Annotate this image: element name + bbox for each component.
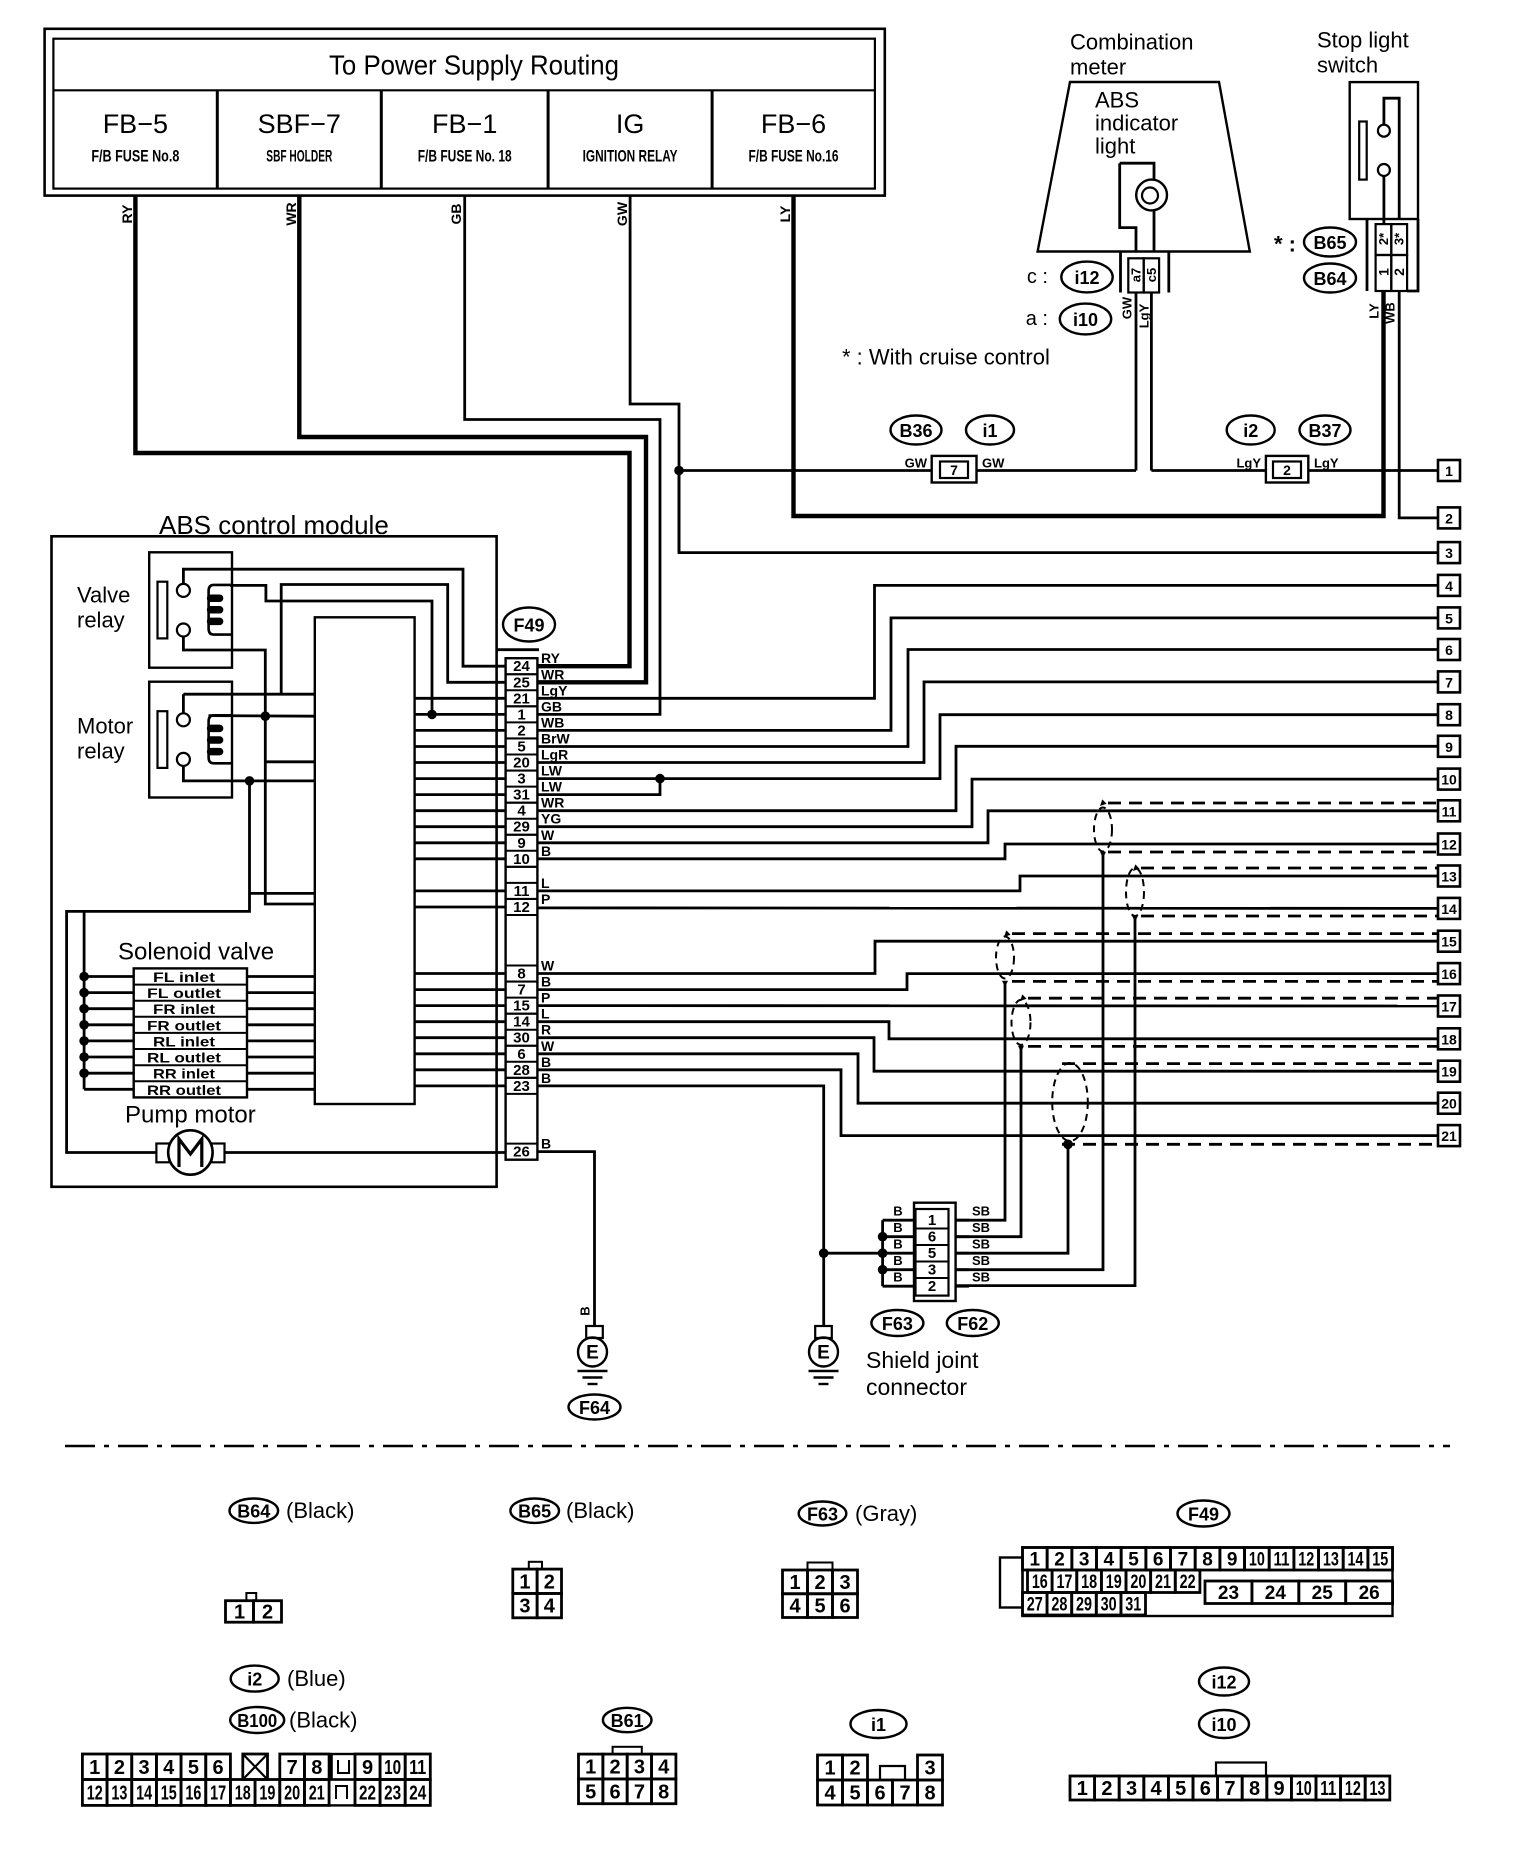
pump motor: [156, 1144, 169, 1163]
solenoid FR inlet wires: [84, 1007, 134, 1010]
svg-text:19: 19: [259, 1782, 275, 1804]
wire motor contact feed: [183, 693, 314, 696]
svg-text:5: 5: [188, 1757, 199, 1779]
connector B64 pin diagram: [246, 1593, 256, 1601]
svg-text:20: 20: [513, 755, 530, 772]
svg-text:6: 6: [1153, 1549, 1164, 1570]
shield dashed 14: [1141, 915, 1438, 918]
terminal box 18: [1438, 1028, 1460, 1049]
svg-text:meter: meter: [1070, 55, 1126, 80]
svg-text:4: 4: [824, 1783, 836, 1805]
svg-text:connector: connector: [866, 1374, 967, 1400]
svg-text:SB: SB: [972, 1220, 990, 1235]
shield drain 17-18: [1018, 1046, 1024, 1052]
svg-text:2: 2: [517, 722, 525, 739]
svg-text:c :: c :: [1027, 266, 1048, 288]
wire BrW pin5 to terminal 6: [537, 650, 1438, 747]
svg-text:6: 6: [213, 1757, 224, 1779]
switch internal wire: [1384, 98, 1399, 219]
wire R pin30 to terminal 19: [537, 1038, 1438, 1072]
ground E1: [586, 1326, 603, 1338]
svg-text:6: 6: [1445, 642, 1453, 658]
terminal box 16: [1438, 963, 1460, 984]
shield ellipse pair 17-18: [1012, 1000, 1031, 1045]
terminal box 21: [1438, 1125, 1460, 1146]
shield connector pin 6: [916, 1228, 949, 1230]
svg-text:GW: GW: [614, 201, 630, 226]
svg-text:B65: B65: [1313, 233, 1346, 253]
terminal box 5: [1438, 607, 1460, 628]
svg-text:GB: GB: [448, 204, 464, 225]
svg-text:GW: GW: [905, 456, 928, 471]
svg-text:15: 15: [1441, 934, 1457, 950]
valve relay contact top: [177, 584, 190, 597]
svg-text:4: 4: [163, 1757, 175, 1779]
svg-text:4: 4: [517, 803, 526, 820]
svg-text:relay: relay: [77, 739, 125, 764]
shield dashed 11: [1108, 802, 1438, 805]
SB stub pin 1: [956, 1219, 969, 1222]
svg-text:FR outlet: FR outlet: [147, 1017, 221, 1033]
svg-text:WR: WR: [283, 202, 299, 225]
svg-text:1: 1: [234, 1601, 245, 1623]
svg-text:W: W: [541, 958, 555, 974]
svg-text:6: 6: [1200, 1778, 1211, 1800]
svg-text:12: 12: [1345, 1778, 1361, 1800]
svg-text:B65: B65: [518, 1502, 551, 1522]
oval B65 bottom: [510, 1499, 559, 1523]
B stub pin 2: [883, 1285, 916, 1288]
solenoid RL inlet: [134, 1032, 247, 1034]
svg-text:Valve: Valve: [77, 583, 130, 608]
svg-text:Motor: Motor: [77, 714, 133, 739]
svg-text:18: 18: [1441, 1031, 1457, 1047]
svg-text:6: 6: [928, 1229, 936, 1246]
wire YG pin29 to terminal 10: [537, 779, 1438, 827]
svg-text:28: 28: [1051, 1594, 1067, 1615]
svg-text:3: 3: [517, 771, 525, 788]
B stub pin 6: [883, 1235, 916, 1238]
wire motor relay top contact: [182, 694, 185, 713]
svg-text:i2: i2: [247, 1670, 262, 1690]
svg-text:6: 6: [609, 1781, 620, 1803]
valve relay armature: [158, 582, 168, 639]
junction motor contact node: [245, 776, 255, 786]
terminal box 11: [1438, 800, 1460, 821]
ABS control module box: [52, 536, 497, 1187]
solenoid FL inlet wires: [84, 975, 134, 978]
svg-text:20: 20: [1441, 1096, 1457, 1112]
svg-text:16: 16: [185, 1782, 201, 1804]
svg-text:1: 1: [1445, 463, 1453, 479]
svg-text:FB−1: FB−1: [432, 109, 497, 139]
svg-text:7: 7: [1178, 1549, 1189, 1570]
svg-text:RR inlet: RR inlet: [153, 1066, 215, 1082]
svg-text:P: P: [541, 891, 550, 907]
svg-text:F64: F64: [579, 1398, 610, 1418]
svg-text:8: 8: [1445, 707, 1453, 723]
svg-text:21: 21: [1441, 1128, 1457, 1144]
oval i1 bottom: [851, 1710, 907, 1738]
wire GW from IG ignition relay: [630, 196, 679, 553]
junction GW node: [674, 466, 684, 476]
svg-text:B: B: [893, 1220, 902, 1235]
svg-text:Pump motor: Pump motor: [125, 1102, 256, 1129]
svg-text:8: 8: [517, 966, 525, 983]
svg-text:BrW: BrW: [541, 731, 571, 747]
svg-text:1: 1: [789, 1572, 800, 1594]
svg-text:E: E: [586, 1343, 599, 1364]
svg-text:* : With cruise control: * : With cruise control: [842, 345, 1050, 370]
terminal box 15: [1438, 931, 1460, 952]
svg-text:9: 9: [1445, 739, 1453, 755]
valve relay box: [149, 552, 232, 667]
solenoid FR inlet: [134, 1000, 247, 1002]
svg-text:21: 21: [513, 690, 530, 707]
wire 1 LgY segment: [1151, 469, 1438, 472]
svg-text:8: 8: [1249, 1778, 1260, 1800]
power box cell divider: [547, 90, 550, 188]
svg-text:Shield joint: Shield joint: [866, 1347, 979, 1373]
inline connector 7: [932, 456, 977, 483]
svg-text:7: 7: [950, 462, 958, 478]
svg-text:RR outlet: RR outlet: [147, 1082, 221, 1098]
central ECU block: [315, 617, 415, 1104]
solenoid RR inlet: [134, 1064, 247, 1066]
bus to ground wire: [824, 1252, 883, 1255]
svg-text:F/B FUSE No. 18: F/B FUSE No. 18: [418, 147, 512, 166]
svg-text:B64: B64: [237, 1502, 270, 1522]
svg-text:FL inlet: FL inlet: [153, 969, 215, 985]
svg-text:19: 19: [1441, 1064, 1457, 1080]
svg-text:5: 5: [849, 1783, 860, 1805]
svg-text:SBF−7: SBF−7: [258, 109, 341, 139]
svg-text:B: B: [541, 1136, 551, 1152]
svg-text:F63: F63: [807, 1505, 838, 1525]
wire B pin7 to terminal 16: [537, 974, 1438, 990]
terminal box 10: [1438, 769, 1460, 790]
wire pump motor to pin 26: [225, 1151, 506, 1154]
motor relay contact bottom: [177, 753, 190, 766]
shield dashed 17: [1028, 997, 1438, 1000]
shield drain 11-12: [1100, 852, 1106, 858]
connector B100 pin diagram: [82, 1754, 107, 1780]
svg-text:B: B: [893, 1253, 902, 1268]
svg-text:i1: i1: [871, 1715, 886, 1735]
svg-text:3: 3: [1126, 1778, 1137, 1800]
svg-text:3: 3: [1445, 545, 1453, 561]
svg-text:B: B: [541, 843, 551, 859]
svg-text:3*: 3*: [1392, 232, 1407, 245]
svg-text:(Black): (Black): [566, 1498, 634, 1523]
svg-text:FB−5: FB−5: [103, 109, 168, 139]
svg-text:4: 4: [1104, 1549, 1115, 1570]
shield dashed 18: [1028, 1045, 1438, 1048]
svg-text:2*: 2*: [1376, 232, 1391, 245]
wire LgY from meter: [1150, 293, 1153, 471]
svg-text:13: 13: [1441, 869, 1457, 885]
svg-text:F62: F62: [957, 1314, 988, 1334]
svg-text:(Gray): (Gray): [855, 1501, 917, 1526]
svg-text:FL outlet: FL outlet: [147, 985, 221, 1001]
shield connector pin 2: [916, 1277, 949, 1279]
svg-text:29: 29: [513, 819, 530, 836]
svg-text:1: 1: [585, 1757, 596, 1779]
shield connector pin 5: [916, 1244, 949, 1246]
shield ellipse pair 13-14: [1126, 868, 1144, 916]
svg-text:3: 3: [634, 1757, 645, 1779]
oval i1: [966, 416, 1014, 445]
svg-text:2: 2: [1054, 1549, 1065, 1570]
svg-text:11: 11: [514, 883, 530, 900]
oval F63 bottom: [799, 1502, 847, 1526]
wire B pin10 to terminal 12: [537, 844, 1438, 859]
wire B pin23 to ground: [537, 1086, 823, 1338]
svg-text:2: 2: [609, 1757, 620, 1779]
separator dash-dot line: [65, 1445, 1450, 1448]
svg-text:i1: i1: [982, 421, 997, 441]
svg-text:5: 5: [517, 739, 525, 756]
SB stub pin 2: [956, 1285, 969, 1288]
switch contact bottom: [1378, 164, 1390, 176]
svg-text:FR inlet: FR inlet: [153, 1001, 215, 1017]
terminal box 6: [1438, 639, 1460, 660]
shield dashed 19: [1062, 1062, 1438, 1065]
svg-text:ABS: ABS: [1095, 88, 1139, 113]
oval B64 bottom: [230, 1499, 279, 1523]
wire RY from FB-5 to F49 pin 24: [135, 196, 629, 667]
oval F49 bottom: [1178, 1501, 1230, 1527]
wire valve relay contact to pin 24: [183, 569, 505, 666]
svg-text:22: 22: [359, 1782, 376, 1804]
wire W pin9 to terminal 11: [537, 811, 1438, 843]
svg-text:To Power Supply Routing: To Power Supply Routing: [329, 50, 619, 81]
shield drain 13-14: [1132, 916, 1138, 922]
connector F63 pin diagram: [808, 1563, 833, 1571]
wire P pin12 to terminal 14: [537, 907, 1438, 910]
svg-text:L: L: [541, 875, 550, 891]
terminal box 1: [1438, 460, 1460, 481]
shield ellipse pair 15-16: [996, 937, 1014, 979]
terminal box 9: [1438, 736, 1460, 757]
block to F49 stubs: [415, 697, 506, 700]
solenoid FL outlet wires: [84, 991, 134, 994]
svg-text:6: 6: [874, 1783, 885, 1805]
connector i10 pin diagram: [1216, 1763, 1266, 1777]
svg-text:LY: LY: [777, 205, 793, 222]
svg-text:2: 2: [114, 1757, 125, 1779]
connector B65 pin diagram: [529, 1562, 542, 1569]
svg-text:31: 31: [1125, 1594, 1141, 1615]
ABS indicator lamp housing: [1120, 163, 1136, 251]
solenoid RR inlet wires: [84, 1072, 134, 1075]
terminal box 14: [1438, 898, 1460, 919]
shield dashed 15: [1012, 932, 1438, 935]
svg-text:SB: SB: [972, 1270, 990, 1285]
svg-text:RL outlet: RL outlet: [147, 1050, 221, 1066]
ABS indicator bulb: [1136, 180, 1167, 211]
svg-text:15: 15: [513, 998, 530, 1015]
wire 3 GW to terminal 3: [679, 471, 1438, 553]
motor relay armature: [158, 711, 168, 768]
svg-text:10: 10: [513, 851, 530, 868]
connector B61 pin diagram: [613, 1747, 642, 1754]
svg-text:12: 12: [1298, 1549, 1314, 1570]
oval B36: [891, 416, 942, 445]
svg-text:20: 20: [1130, 1572, 1146, 1593]
svg-text:RY: RY: [119, 204, 135, 224]
svg-text:Stop light: Stop light: [1317, 28, 1409, 53]
svg-text:1: 1: [89, 1757, 100, 1779]
meter connector cells a7 c5: [1119, 252, 1122, 293]
svg-text:2: 2: [928, 1278, 936, 1295]
wire B pin26 to ground F64: [537, 1152, 594, 1338]
svg-text:(Black): (Black): [286, 1498, 354, 1523]
svg-text:RL inlet: RL inlet: [153, 1033, 215, 1049]
svg-text:7: 7: [1445, 674, 1453, 690]
svg-text:15: 15: [161, 1782, 177, 1804]
svg-text:P: P: [541, 990, 550, 1006]
svg-text:18: 18: [235, 1782, 251, 1804]
svg-text:5: 5: [1445, 610, 1453, 626]
shield connector pin 3: [916, 1261, 949, 1263]
oval F64: [569, 1395, 621, 1420]
wire GB from FB-1 to F49 pin 1: [465, 196, 660, 715]
svg-text:IGNITION RELAY: IGNITION RELAY: [583, 147, 678, 166]
svg-text:LgR: LgR: [541, 747, 568, 763]
connector left wall: [1366, 219, 1369, 291]
svg-text:30: 30: [513, 1030, 530, 1047]
svg-text:W: W: [541, 827, 555, 843]
svg-text:LgY: LgY: [1314, 456, 1339, 471]
svg-text:FB−6: FB−6: [761, 109, 826, 139]
connector right wall: [1407, 219, 1418, 291]
shield ellipse triple 19-20-21: [1052, 1063, 1088, 1141]
terminal box 4: [1438, 575, 1460, 596]
svg-text:IG: IG: [616, 109, 645, 139]
svg-text:5: 5: [928, 1245, 936, 1262]
svg-text:i10: i10: [1211, 1715, 1236, 1735]
oval B64: [1304, 264, 1356, 293]
svg-text:9: 9: [517, 835, 525, 852]
terminal box 3: [1438, 542, 1460, 563]
solenoid valve box: [134, 968, 247, 1097]
svg-text:SB: SB: [972, 1237, 990, 1252]
svg-text:31: 31: [513, 787, 530, 804]
svg-text:7: 7: [899, 1783, 910, 1805]
B stub pin 1: [883, 1219, 916, 1222]
svg-text:4: 4: [658, 1757, 670, 1779]
wire motor relay bottom contact: [183, 766, 314, 781]
svg-text:RY: RY: [541, 650, 561, 666]
svg-text:9: 9: [1227, 1549, 1238, 1570]
solenoid RL outlet: [134, 1048, 247, 1050]
svg-text:F/B FUSE No.8: F/B FUSE No.8: [91, 147, 179, 166]
svg-text:8: 8: [311, 1757, 322, 1779]
svg-text:1: 1: [1376, 268, 1392, 276]
svg-text:5: 5: [585, 1781, 596, 1803]
svg-text:14: 14: [1348, 1549, 1364, 1570]
svg-text:c5: c5: [1144, 268, 1159, 282]
stop light switch box: [1350, 82, 1418, 219]
svg-text:4: 4: [789, 1596, 801, 1618]
terminal box 2: [1438, 507, 1460, 528]
shield drain 19-21: [1063, 1140, 1073, 1150]
oval B37: [1300, 416, 1351, 445]
svg-text:W: W: [541, 1038, 555, 1054]
svg-text:2: 2: [814, 1572, 825, 1594]
svg-text:2: 2: [1283, 462, 1291, 478]
ground E2: [815, 1326, 832, 1338]
svg-text:SB: SB: [972, 1204, 990, 1219]
wire node to solenoid bus: [67, 781, 250, 1153]
junction relay node: [261, 711, 271, 721]
svg-text:F63: F63: [882, 1314, 913, 1334]
svg-text:7: 7: [517, 982, 525, 999]
svg-text:1: 1: [1077, 1778, 1088, 1800]
svg-text:a :: a :: [1026, 308, 1048, 330]
wire L pin14 to terminal 18: [537, 1022, 1438, 1039]
motor relay contact top: [177, 713, 190, 726]
shield drain 15-16: [1002, 981, 1008, 987]
svg-text:7: 7: [287, 1757, 298, 1779]
svg-text:WR: WR: [541, 666, 564, 682]
svg-text:YG: YG: [541, 811, 561, 827]
svg-text:11: 11: [1320, 1778, 1336, 1800]
svg-text:L: L: [541, 1006, 550, 1022]
svg-text:i2: i2: [1243, 421, 1258, 441]
wire GW from meter: [1135, 293, 1138, 471]
svg-text:16: 16: [1441, 966, 1457, 982]
wire 1 GW segment: [679, 469, 1136, 472]
svg-text:B: B: [541, 974, 551, 990]
svg-text:3: 3: [928, 1262, 936, 1279]
svg-text:(Black): (Black): [289, 1708, 357, 1733]
shield joint connector box: [914, 1203, 956, 1301]
svg-text:8: 8: [658, 1781, 669, 1803]
power supply routing box: [45, 29, 885, 196]
svg-text:1: 1: [824, 1758, 835, 1780]
motor relay box: [149, 682, 232, 798]
svg-text:1: 1: [928, 1212, 936, 1229]
svg-text:13: 13: [1370, 1778, 1386, 1800]
terminal box 17: [1438, 996, 1460, 1017]
wire L pin11 to terminal 13: [537, 876, 1438, 891]
svg-text:7: 7: [1224, 1778, 1235, 1800]
svg-text:SBF HOLDER: SBF HOLDER: [266, 147, 332, 166]
wire B pin28 to terminal 21: [537, 1070, 1438, 1136]
wire WR pin25 to motor relay contact: [281, 585, 505, 695]
svg-text:17: 17: [1441, 999, 1457, 1015]
svg-text:8: 8: [924, 1783, 935, 1805]
wire W pin6 to terminal 20: [537, 1054, 1438, 1103]
svg-text:GB: GB: [541, 698, 562, 714]
svg-text:LgY: LgY: [1137, 303, 1152, 328]
svg-text:14: 14: [513, 1014, 530, 1031]
svg-text:2: 2: [1101, 1778, 1112, 1800]
terminal box 19: [1438, 1061, 1460, 1082]
switch plunger rect: [1359, 122, 1367, 180]
power box cell divider: [380, 90, 383, 188]
svg-text:LgY: LgY: [541, 682, 568, 698]
svg-text:B: B: [541, 1054, 551, 1070]
svg-text:a7: a7: [1129, 268, 1144, 282]
wire motor coil to block: [209, 714, 315, 717]
svg-text:26: 26: [1359, 1583, 1380, 1604]
svg-text:5: 5: [814, 1596, 825, 1618]
svg-text:2: 2: [1445, 510, 1453, 526]
svg-text:15: 15: [1372, 1549, 1388, 1570]
